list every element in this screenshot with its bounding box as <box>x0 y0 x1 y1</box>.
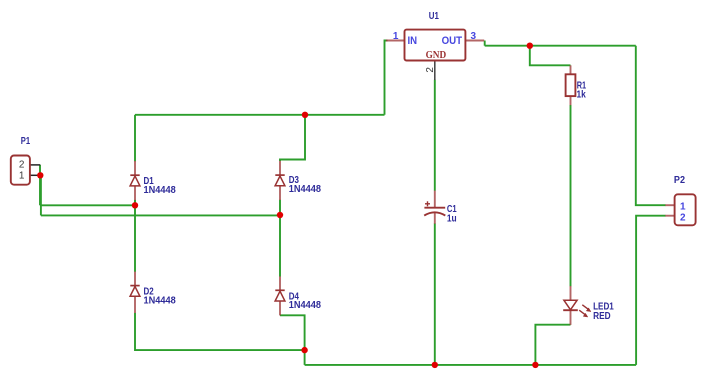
svg-text:2: 2 <box>680 212 686 223</box>
svg-text:RED: RED <box>593 311 611 322</box>
svg-text:2: 2 <box>19 160 25 171</box>
diode D2 <box>130 272 140 313</box>
wire VCC top horizontal <box>485 45 636 47</box>
svg-text:1N4448: 1N4448 <box>144 185 177 196</box>
connector P1 pin stubs <box>30 165 40 175</box>
diode D3 <box>275 161 285 200</box>
wire U1 OUT jog <box>484 41 486 46</box>
svg-text:1u: 1u <box>447 214 457 225</box>
svg-text:1: 1 <box>393 31 399 42</box>
svg-text:1k: 1k <box>577 90 587 101</box>
wire AC2 horizontal to D3-D4 node <box>41 214 280 216</box>
svg-text:P1: P1 <box>21 136 31 147</box>
wire D1 anode stub <box>134 200 136 205</box>
wire R1 branch <box>530 46 571 66</box>
diode D4 <box>275 276 285 315</box>
wire right vertical to P2 pin1 <box>636 46 666 206</box>
junction ground D2-D4 <box>301 347 307 353</box>
connector P2 pin stubs <box>665 205 674 216</box>
junction VCC R1 branch <box>527 43 533 49</box>
wire P1 pin1 vertical <box>40 175 42 215</box>
junction top rail D3 branch <box>302 112 308 118</box>
junction D3 anode node <box>277 212 283 218</box>
LED LED1 <box>563 286 591 325</box>
svg-text:3: 3 <box>471 31 477 42</box>
capacitor C1 <box>424 191 445 224</box>
wire top rail <box>135 114 385 116</box>
svg-text:GND: GND <box>426 49 447 61</box>
resistor R1 <box>566 65 576 105</box>
wire D2 cathode up <box>134 286 136 296</box>
regulator U1 body <box>405 30 466 61</box>
wire D2 anode down <box>135 313 305 350</box>
svg-text:IN: IN <box>408 35 418 47</box>
svg-text:1N4448: 1N4448 <box>144 295 177 306</box>
svg-text:OUT: OUT <box>442 35 463 47</box>
connector P1 body <box>11 156 30 185</box>
LED1 arrow 2 <box>579 310 588 317</box>
junction D1 anode node <box>132 202 138 208</box>
wire D3 anode stub <box>279 200 281 216</box>
svg-text:1: 1 <box>19 171 25 182</box>
svg-text:U1: U1 <box>429 11 439 22</box>
wire ground jog <box>304 350 306 365</box>
LED1 arrow 1 <box>582 305 591 312</box>
wire to U1 IN <box>385 41 388 115</box>
svg-text:P2: P2 <box>674 175 685 186</box>
wire U1 GND to C1 <box>434 80 436 191</box>
wire LED1 cathode to ground rail <box>535 325 570 365</box>
svg-text:2: 2 <box>425 67 436 73</box>
wire D3 branch <box>280 115 305 161</box>
junction P1 pins <box>37 172 43 178</box>
wire C1 minus to ground rail <box>434 224 436 365</box>
junction ground LED branch <box>532 362 538 368</box>
wire ground rail <box>305 364 636 366</box>
svg-text:1N4448: 1N4448 <box>289 300 322 311</box>
wire D4 anode down <box>280 315 305 350</box>
regulator U1 pin2 stub <box>434 61 436 81</box>
wire P1 pin2 vertical <box>39 165 41 205</box>
diode D1 <box>130 161 140 200</box>
connector P2 body <box>675 194 696 225</box>
wire D1-D2 mid vertical <box>134 205 136 271</box>
regulator U1 pin3 stub <box>465 40 484 42</box>
wire R1 to LED1 <box>570 105 572 286</box>
wire D3-D4 mid vertical <box>279 215 281 276</box>
regulator U1 pin1 stub <box>386 40 405 42</box>
wire right vertical to P2 pin2 <box>636 216 665 365</box>
wire AC1 horizontal to D1-D2 node <box>40 204 135 206</box>
junction ground C1 <box>432 362 438 368</box>
svg-text:1: 1 <box>680 202 686 213</box>
svg-text:1N4448: 1N4448 <box>289 184 322 195</box>
wire D1 cathode up <box>134 115 136 162</box>
